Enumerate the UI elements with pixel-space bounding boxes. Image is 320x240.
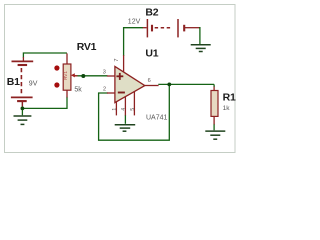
svg-text:9V: 9V bbox=[29, 81, 38, 88]
svg-text:U1: U1 bbox=[145, 48, 158, 60]
svg-text:2: 2 bbox=[103, 86, 106, 92]
svg-text:RV1: RV1 bbox=[77, 41, 97, 53]
svg-text:12V: 12V bbox=[128, 18, 141, 25]
svg-text:1k: 1k bbox=[223, 105, 231, 112]
svg-text:7: 7 bbox=[114, 58, 120, 61]
svg-text:R1: R1 bbox=[223, 91, 236, 103]
svg-text:3: 3 bbox=[103, 70, 106, 76]
svg-text:1: 1 bbox=[112, 108, 118, 111]
svg-text:6: 6 bbox=[148, 78, 151, 84]
svg-text:5: 5 bbox=[130, 108, 136, 111]
svg-text:B1: B1 bbox=[7, 76, 20, 88]
svg-text:RV1: RV1 bbox=[63, 71, 68, 80]
svg-text:5k: 5k bbox=[74, 87, 82, 94]
svg-text:B2: B2 bbox=[145, 7, 158, 19]
svg-text:UA741: UA741 bbox=[146, 115, 168, 122]
svg-text:4: 4 bbox=[121, 108, 127, 111]
